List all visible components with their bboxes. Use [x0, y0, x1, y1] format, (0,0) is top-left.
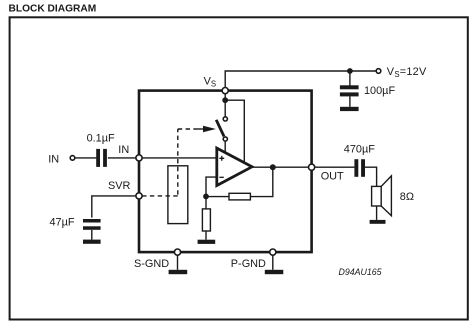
svg-text:D94AU165: D94AU165 [339, 267, 382, 277]
wire: C1 to IN pin [108, 157, 136, 159]
svg-text:S-GND: S-GND [134, 258, 169, 270]
wire: speaker to ground [376, 206, 378, 220]
wire: op-amp output to OUT pin [252, 166, 308, 168]
pin Vs [222, 88, 228, 94]
svg-text:47µF: 47µF [50, 216, 75, 228]
dashed control line to switch [178, 129, 196, 195]
resistor R1 (feedback) [229, 193, 250, 200]
svg-text:P-GND: P-GND [231, 258, 266, 270]
input terminal [70, 156, 75, 161]
junction (supply rail / C3) [347, 68, 353, 74]
wire: feedback node to R1 [206, 196, 229, 198]
junction (Vs internal node) [222, 97, 228, 103]
svg-text:BLOCK DIAGRAM: BLOCK DIAGRAM [9, 4, 97, 15]
svg-text:VS=12V: VS=12V [387, 66, 427, 79]
ground (S-GND) [169, 270, 188, 274]
junction (feedback node) [203, 194, 209, 200]
svg-text:IN: IN [118, 144, 129, 156]
svg-text:8Ω: 8Ω [400, 191, 414, 203]
capacitor C2 47uF [83, 219, 101, 230]
svg-text:IN: IN [48, 154, 59, 166]
wire: S-GND pin to ground [177, 255, 179, 270]
junction (output node) [270, 164, 276, 170]
svg-text:0.1µF: 0.1µF [87, 133, 115, 145]
op-amp + mark [219, 156, 224, 161]
wire: IN pin to op-amp + input [142, 157, 217, 159]
svg-text:SVR: SVR [108, 180, 131, 192]
svg-text:100µF: 100µF [364, 85, 395, 97]
wire: op-amp - input to feedback node [206, 177, 216, 196]
wire: C3 to ground [349, 96, 351, 106]
supply terminal Vs=12V [376, 69, 381, 74]
wire: Vs node to op-amp supply [225, 100, 244, 163]
pin SVR [136, 193, 142, 199]
ground (P-GND) [265, 270, 284, 274]
wire: input terminal to C1 [75, 157, 96, 159]
capacitor C3 100uF [340, 85, 359, 96]
wire: C4 to speaker [365, 167, 377, 186]
resistor R2 (to ground) [202, 209, 210, 231]
ground (R2) [198, 240, 216, 244]
pin P-GND [270, 249, 276, 255]
wire: switch to op-amp [224, 141, 226, 153]
ground (C2) [83, 240, 101, 244]
pin IN [136, 155, 142, 161]
wire: R2 to ground [205, 231, 207, 240]
wire: R1 to output node [250, 167, 272, 196]
svg-text:OUT: OUT [321, 171, 344, 183]
wire: P-GND pin to ground [272, 255, 274, 270]
wire: supply rail to C3 [349, 71, 351, 86]
speaker LS1 [372, 176, 392, 216]
wire: Vs pin to switch SW1 [224, 94, 226, 117]
op-amp U1 [217, 148, 252, 185]
ripple-rejection block (SVR) [168, 166, 188, 224]
op-amp - mark [219, 176, 223, 178]
svg-text:VS: VS [204, 76, 216, 89]
arrow to switch [203, 126, 216, 133]
wire: OUT pin to C4 [315, 166, 355, 168]
switch SW1 [216, 117, 227, 141]
pin OUT [309, 164, 315, 170]
wire: C2 to ground [91, 230, 93, 240]
capacitor C1 0.1uF [96, 149, 107, 167]
ground (C3) [340, 107, 359, 111]
capacitor C4 470uF [354, 159, 365, 177]
wire: Vs pin to supply rail [225, 71, 376, 88]
dashed wire: SVR pin to block [142, 195, 178, 197]
pin S-GND [174, 249, 180, 255]
IC block boundary U1 [139, 91, 312, 253]
wire: SVR pin to C2 [92, 196, 136, 218]
wire: feedback node to R2 [205, 196, 207, 209]
svg-text:470µF: 470µF [344, 144, 375, 156]
ground (speaker) [370, 220, 386, 224]
